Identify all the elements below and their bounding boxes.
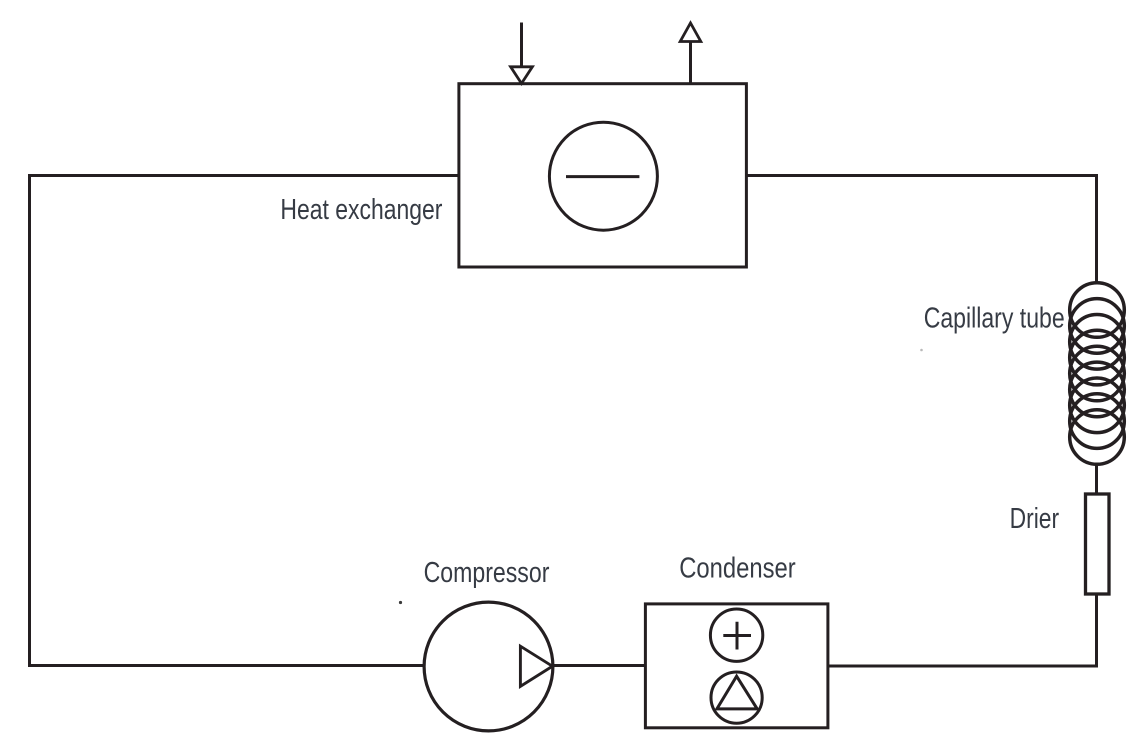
stray dot near compressor label [399,601,402,604]
wire bottom horizontal (left riser to compressor) [28,664,424,667]
condenser plus circle [710,609,762,661]
wire condenser to right riser [828,665,1098,668]
heat exchanger circle [549,122,657,230]
compressor circle [424,602,553,731]
capillary tube coil (overlapping circles) [1070,283,1125,465]
heat exchanger minus line [566,175,639,178]
condenser fan circle [711,672,762,723]
wire compressor to condenser [552,664,646,667]
heat exchanger box [459,84,747,267]
wire capillary coil to top wire [1095,174,1098,284]
wire drier to capillary coil [1095,463,1098,495]
stray faint dot left of capillary label [920,349,923,352]
wire left vertical [28,174,31,667]
svg-text:Compressor: Compressor [424,557,550,589]
arrow out (up), open head [680,23,701,42]
condenser fan triangle [717,676,757,709]
arrow in (down), open head [511,67,533,84]
svg-text:Drier: Drier [1010,503,1060,535]
wire top horizontal (left riser to heat exchanger) [30,174,459,177]
svg-text:Capillary tube: Capillary tube [924,303,1065,335]
compressor triangle (points right) [520,646,552,686]
wire right vertical lower (bottom wire to drier) [1095,594,1098,668]
wire heat exchanger to right riser [746,174,1098,177]
arrow in (down), shaft [520,23,523,68]
condenser plus sign [723,622,751,650]
svg-text:Heat exchanger: Heat exchanger [280,194,442,226]
condenser box [645,604,828,728]
drier rectangle [1086,494,1110,594]
arrow out (up), shaft [689,42,692,84]
svg-text:Condenser: Condenser [679,553,796,585]
